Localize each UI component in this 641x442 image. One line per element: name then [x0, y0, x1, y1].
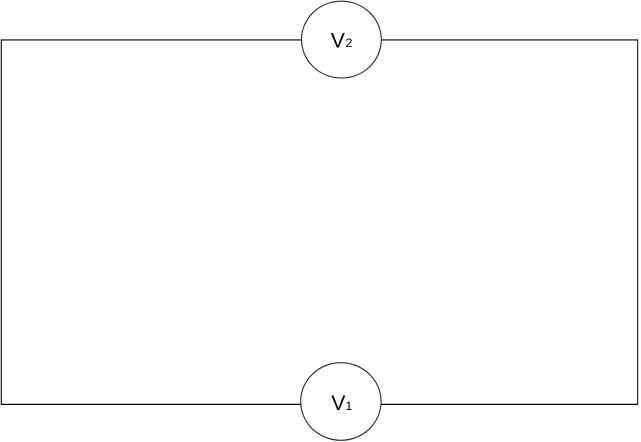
svg-text:V: V — [331, 29, 346, 52]
svg-text:V: V — [331, 392, 346, 415]
svg-text:1: 1 — [345, 399, 352, 413]
svg-text:2: 2 — [346, 36, 353, 50]
